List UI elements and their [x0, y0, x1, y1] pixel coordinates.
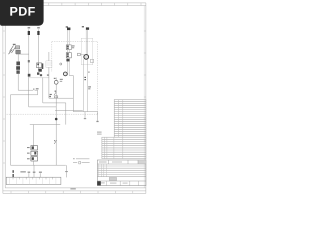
limit contact on riser: [54, 140, 57, 144]
contact on wire W1: [28, 60, 30, 62]
stub wire t2: [33, 165, 36, 177]
stub wire t3: [39, 172, 42, 178]
plug connector X1: [63, 72, 67, 76]
riser wire: [72, 76, 74, 112]
legend notes: [73, 158, 90, 164]
stub terminal X3: [96, 112, 98, 123]
terminal blob DL1 bottom: [66, 59, 69, 62]
wire QF1 down: [17, 54, 19, 62]
contactor coil KM3: [27, 157, 38, 161]
wire QF1 to feeder node: [16, 53, 29, 55]
contact S3: [54, 91, 58, 98]
label above terminal strip: [20, 171, 25, 172]
disconnect switch S1: [86, 27, 89, 29]
double wire DL2: [86, 30, 88, 55]
wire below motor a: [83, 59, 85, 111]
title block: [97, 160, 145, 186]
contact stack K0: [16, 62, 20, 74]
fuse F2: [37, 29, 39, 35]
label T2 top: [82, 26, 84, 27]
label F1: [28, 27, 31, 28]
wire DL1 to riser: [69, 75, 73, 77]
parts list table upper: [114, 100, 146, 138]
terminal strip TB1: [6, 177, 61, 184]
fuse F3 on feeder stub: [13, 170, 14, 177]
label F2: [37, 27, 40, 28]
motor M1: [84, 55, 89, 60]
contactor KM0: [66, 53, 71, 58]
junction dot J1: [55, 118, 58, 121]
wire bus L5: [29, 106, 57, 108]
box right of motor: [90, 59, 93, 62]
wire K0 down to relay contact: [17, 74, 19, 90]
wire bus L1: [18, 89, 33, 91]
left return wire: [10, 95, 12, 165]
wire B1 down: [48, 67, 50, 98]
terminal mark under B1: [47, 74, 49, 76]
circuit breaker QF1: [9, 44, 21, 54]
svg-text:PDF: PDF: [10, 5, 36, 19]
thermal relay FR1: [66, 45, 74, 50]
parts list table lower: [102, 137, 146, 158]
contactor coil KM2: [27, 151, 38, 155]
wire B1 top: [48, 52, 50, 61]
selector switch S2: [54, 78, 63, 85]
wire KM down: [33, 161, 35, 165]
wire bus L8: [30, 124, 60, 126]
wire drop to contactor: [33, 125, 35, 147]
wire bus L6: [55, 109, 83, 111]
aux box left of motor: [78, 53, 85, 56]
wire bus L2: [11, 94, 38, 96]
wire W1: [28, 35, 30, 74]
dashed enclosure: [7, 42, 98, 115]
disconnect switch S0: [67, 28, 70, 31]
wire riser right: [65, 103, 67, 125]
tick on motor wire: [88, 72, 90, 73]
relay contact KA1: [33, 88, 38, 95]
wire bus L3: [49, 97, 73, 99]
motor branch enclosure: [81, 38, 93, 65]
meter box B1: [46, 61, 52, 67]
stub wire t1: [28, 172, 31, 178]
wire bus L7: [73, 111, 97, 113]
double wire DL1: [68, 30, 70, 76]
wire bus L4: [43, 102, 66, 104]
junction node W1: [28, 74, 31, 77]
wire S2 down: [55, 84, 57, 98]
stub wire t4: [65, 165, 68, 177]
brake contact on wire b: [84, 77, 86, 80]
wire bottom bus: [11, 164, 66, 166]
fuse F1: [28, 29, 30, 35]
wire link under feeders: [29, 77, 49, 79]
label T1 top: [66, 26, 68, 27]
company logo mark: [97, 181, 101, 185]
note marks left of tables: [97, 132, 102, 135]
wire drop L4a: [42, 78, 44, 103]
wire drop L5a: [28, 77, 30, 107]
wire riser mid: [55, 98, 57, 165]
wire below motor b: [86, 59, 88, 111]
aux contact on B1 wire: [49, 94, 52, 97]
label near wire b: [88, 86, 91, 89]
switch cluster Q2: [37, 63, 44, 76]
wire W2: [37, 35, 39, 70]
stub terminal X2: [84, 112, 86, 119]
contactor coil KM1: [27, 146, 38, 150]
indicator lamp H1: [60, 63, 62, 65]
PDF badge: [0, 0, 44, 26]
